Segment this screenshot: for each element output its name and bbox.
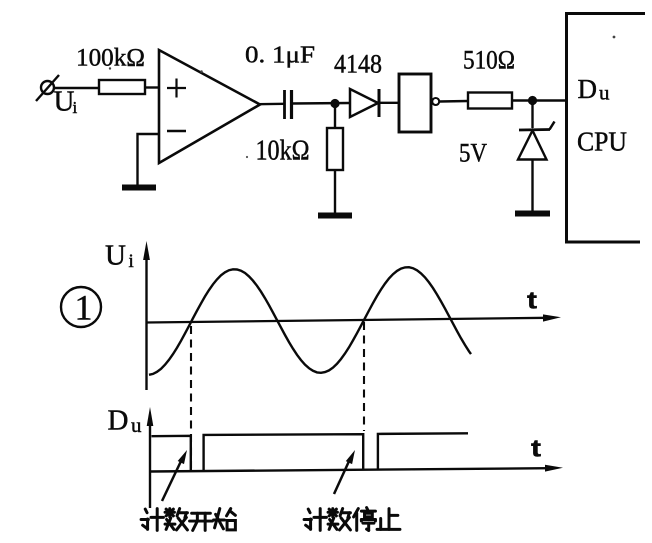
wire [379, 102, 399, 104]
sine wave Ui [149, 267, 471, 375]
plus sign [167, 87, 186, 89]
svg-text:u: u [599, 81, 610, 105]
svg-text:i: i [129, 251, 134, 272]
svg-text:100kΩ: 100kΩ [76, 43, 145, 72]
zener diode Z1 [519, 128, 550, 131]
svg-text:4148: 4148 [334, 50, 382, 79]
wire down to 10k [334, 104, 336, 129]
node A junction [332, 100, 339, 107]
label jishutingzhi [304, 509, 326, 531]
ground op-amp [122, 185, 156, 191]
wire output [258, 103, 284, 106]
wire [531, 160, 533, 214]
svg-text:U: U [105, 240, 126, 272]
resistor R2 10k [327, 128, 343, 170]
capacitor C1 0.1uF [283, 90, 286, 119]
wire down zener [531, 101, 533, 129]
svg-text:i: i [73, 98, 78, 117]
svg-text:D: D [108, 405, 129, 437]
label jishukaishi [141, 509, 163, 531]
speckle dots [109, 67, 111, 69]
CPU box bracket [567, 14, 646, 243]
svg-text:t: t [531, 436, 541, 463]
input terminal [41, 81, 54, 94]
chart1 vertical axis [145, 250, 147, 390]
resistor R1 100k [99, 80, 145, 94]
svg-text:CPU: CPU [577, 126, 627, 157]
wire to CPU [512, 99, 566, 101]
Du waveform [152, 433, 469, 470]
wire [145, 86, 159, 88]
dashed line start [190, 326, 192, 468]
minus sign [167, 130, 186, 133]
wire minus input [138, 134, 160, 186]
svg-text:t: t [527, 288, 537, 315]
circled 1 [61, 287, 101, 327]
svg-text:U: U [54, 86, 75, 118]
svg-text:0. 1μF: 0. 1μF [245, 42, 315, 69]
chart2 t axis [150, 468, 549, 471]
node B junction [529, 97, 536, 104]
ground zener [515, 211, 550, 217]
inverter bubble [432, 98, 439, 105]
ground 10k [318, 213, 352, 219]
svg-text:1: 1 [75, 288, 93, 328]
resistor R3 510 [468, 93, 512, 109]
inverter gate box [399, 74, 431, 132]
svg-text:510Ω: 510Ω [463, 46, 515, 75]
chart2 vertical axis [149, 415, 151, 508]
wire [334, 170, 336, 215]
op-amp U1 [159, 50, 260, 163]
wire [440, 100, 469, 103]
wire input [54, 87, 99, 89]
wire [292, 102, 350, 105]
indicator arrow start [162, 459, 182, 501]
svg-text:u: u [131, 413, 142, 437]
dashed line stop [363, 322, 365, 431]
chart1 t axis [146, 318, 547, 323]
svg-text:10kΩ: 10kΩ [256, 136, 310, 167]
svg-text:5V: 5V [459, 139, 487, 168]
svg-text:D: D [578, 74, 598, 104]
indicator arrow stop [334, 459, 350, 494]
diode D1 4148 [350, 89, 378, 117]
